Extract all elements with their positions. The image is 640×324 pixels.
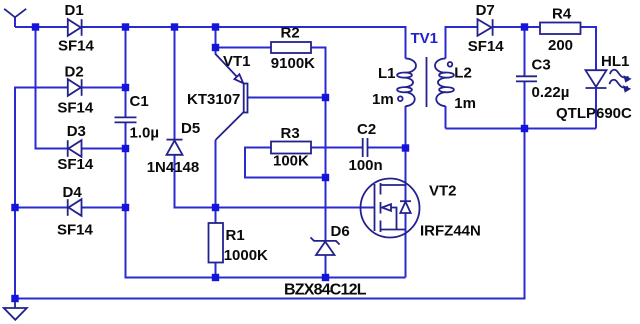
node ground junction [11, 295, 18, 302]
wire C1 column x=125.5 top [125, 27, 127, 117]
wire R3 left loop [245, 148, 326, 178]
wire top row from antenna to transformer L1 top [15, 27, 406, 59]
svg-text:SF14: SF14 [468, 38, 505, 55]
svg-text:C3: C3 [532, 57, 551, 74]
node VT1 emitter / R2 junction [212, 44, 219, 51]
node top C1 junction [122, 23, 129, 30]
diode D5 [167, 140, 183, 155]
svg-text:QTLP690C: QTLP690C [556, 105, 632, 122]
wire antenna stem [14, 17, 16, 27]
wire L2 top lead to D7 [446, 27, 478, 59]
wire C3 top lead [524, 27, 526, 76]
diode D2 [68, 79, 82, 96]
svg-text:C1: C1 [130, 93, 149, 110]
wire R2 right lead down through base node to zener D6 [311, 48, 326, 242]
wire R3 right lead to C2 [311, 147, 362, 149]
resistor R1 [209, 223, 224, 263]
svg-text:R2: R2 [281, 25, 300, 42]
svg-text:SF14: SF14 [57, 156, 94, 173]
node C3 bottom junction [521, 125, 528, 132]
svg-text:100n: 100n [349, 157, 383, 174]
svg-text:D4: D4 [63, 184, 83, 201]
svg-text:1m: 1m [454, 95, 476, 112]
node R3 loop junction [322, 174, 329, 181]
node top D5 junction [171, 23, 178, 30]
resistor R3 [271, 142, 311, 154]
svg-text:HL1: HL1 [601, 53, 629, 70]
wire D3 row right part [82, 148, 126, 150]
node C1 bottom / D3 junction [122, 145, 129, 152]
zener diode D6 [311, 237, 340, 255]
resistor R2 [271, 42, 311, 53]
node R1 bottom junction [212, 274, 219, 281]
wire D4 row [15, 207, 126, 209]
wire D2 row and far-left column down to ground [15, 88, 126, 299]
antenna [4, 9, 26, 17]
node C2 / drain junction [402, 144, 409, 151]
wire right column + bottom row2 to ground [15, 129, 525, 299]
node top VT1 junction [212, 23, 219, 30]
svg-text:D5: D5 [181, 120, 200, 137]
wire VT1 collector column [215, 140, 217, 208]
svg-text:D7: D7 [476, 2, 495, 19]
svg-text:R1: R1 [226, 227, 245, 244]
svg-text:BZX84C12L: BZX84C12L [284, 282, 367, 299]
capacitor C1 [115, 117, 137, 122]
svg-text:D1: D1 [65, 2, 84, 19]
svg-text:VT1: VT1 [223, 53, 251, 70]
wire HL1 cathode lead [595, 89, 597, 129]
wire D5 column from top row [174, 27, 176, 139]
wire C1 column bottom + bottom row1 to MOSFET corner [126, 123, 406, 278]
svg-text:TV1: TV1 [411, 30, 439, 47]
svg-text:IRFZ44N: IRFZ44N [420, 223, 481, 240]
LED HL1 light arrows [610, 70, 631, 92]
diode D3 [68, 140, 82, 157]
wire VT1 base lead [248, 97, 326, 99]
node D4 left junction [11, 204, 18, 211]
wire VT1 emitter column [215, 27, 217, 55]
wire R1 leads [215, 208, 217, 278]
wire ground lead [14, 299, 16, 309]
svg-text:200: 200 [548, 37, 573, 54]
node VT1 base / R2 junction [322, 94, 329, 101]
svg-text:0.22µ: 0.22µ [532, 84, 570, 101]
node C1 top / D2 junction [122, 84, 129, 91]
svg-text:D6: D6 [331, 223, 350, 240]
wire left column x=35.5 down to D3 row [36, 27, 68, 149]
svg-text:1m: 1m [372, 91, 394, 108]
resistor R4 [540, 23, 581, 35]
wire C3 bottom lead [524, 82, 526, 129]
transformer TV1 core [426, 57, 428, 107]
wire R2 left lead [216, 47, 272, 49]
capacitor C2 [363, 138, 368, 157]
inductor L1 winding [397, 59, 416, 107]
ground [4, 308, 27, 320]
wire D6 bottom lead [325, 255, 327, 278]
svg-text:1000K: 1000K [224, 247, 268, 264]
capacitor C3 [516, 76, 537, 81]
wire L2 bottom lead [445, 106, 447, 129]
wire secondary bottom row [446, 128, 597, 130]
transistor VT2 (MOSFET) [361, 179, 420, 238]
node gate row / R1 junction [212, 204, 219, 211]
svg-text:VT2: VT2 [429, 183, 457, 200]
inductor L2 phase dot [448, 62, 453, 67]
svg-text:9100K: 9100K [271, 55, 315, 72]
svg-text:1.0µ: 1.0µ [130, 125, 160, 142]
wire D7 cathode to node [493, 26, 540, 28]
diode D4 [68, 199, 82, 216]
svg-text:SF14: SF14 [57, 100, 94, 117]
LED HL1 [586, 70, 607, 88]
diode D1 [68, 19, 82, 36]
node antenna junction [32, 23, 39, 30]
node D7 / R4 / C3 junction [521, 23, 528, 30]
diode D7 [478, 19, 493, 36]
svg-text:L2: L2 [454, 65, 472, 82]
svg-text:100K: 100K [273, 153, 309, 170]
wire R4 right lead to HL1 [581, 27, 597, 70]
inductor L2 winding [435, 59, 454, 107]
svg-text:SF14: SF14 [58, 38, 95, 55]
inductor L1 phase dot [398, 96, 403, 101]
svg-text:KT3107: KT3107 [187, 91, 240, 108]
transistor VT1 [216, 54, 248, 140]
svg-text:SF14: SF14 [57, 222, 94, 239]
svg-text:C2: C2 [357, 121, 376, 138]
wire L1 bottom / VT2 drain-source column [405, 106, 407, 278]
wire D5 bottom + gate row to VT2 [175, 155, 375, 208]
svg-text:D2: D2 [65, 64, 84, 81]
wire C2 right lead to drain column [368, 147, 406, 149]
svg-text:1N4148: 1N4148 [147, 159, 200, 176]
node D6 bottom junction [322, 274, 329, 281]
svg-text:R4: R4 [552, 6, 572, 23]
svg-text:L1: L1 [378, 65, 396, 82]
svg-text:D3: D3 [67, 123, 86, 140]
node D4 right junction [122, 204, 129, 211]
svg-text:R3: R3 [281, 125, 300, 142]
